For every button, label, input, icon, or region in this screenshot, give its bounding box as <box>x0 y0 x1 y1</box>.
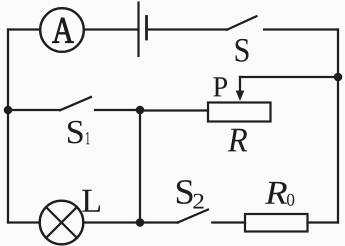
wire ammeter to battery <box>84 28 139 30</box>
switch S <box>227 16 338 30</box>
label S1 text S <box>68 121 83 144</box>
wire rail to lamp <box>8 221 40 223</box>
label S text <box>236 39 249 62</box>
node junction (wiper to right rail) <box>334 73 343 82</box>
label S2 text S <box>177 180 193 204</box>
wire middle vertical branch <box>139 110 141 223</box>
label R0 subscript 0 <box>287 194 294 206</box>
label S2 subscript 2 <box>193 194 203 209</box>
label A text <box>52 18 73 43</box>
label S1 subscript 1 <box>86 132 90 144</box>
battery (cell) <box>139 3 147 57</box>
label R0 text R <box>265 182 287 204</box>
lamp L <box>40 201 84 245</box>
node junction middle branch / lamp wire <box>136 218 145 227</box>
label P text <box>213 77 227 96</box>
switch S2 <box>140 210 245 223</box>
rheostat R body <box>208 103 271 122</box>
wire right rail <box>337 30 339 223</box>
ammeter A <box>40 8 84 52</box>
resistor R0 body <box>245 214 308 232</box>
wire wiper to right rail <box>240 76 338 78</box>
wire lamp to middle node <box>83 221 140 223</box>
rheostat R wiper arrow P <box>236 77 245 101</box>
switch S1 <box>8 97 140 110</box>
node junction left rail / S1 <box>4 106 13 115</box>
label R text <box>228 129 248 152</box>
wire rheostat to middle node <box>140 109 208 111</box>
wire R0 to right rail <box>308 221 339 223</box>
wire battery to switch S <box>147 28 228 30</box>
node junction S1 / rheostat / middle branch <box>136 106 145 115</box>
wire top left (rail to ammeter) <box>8 28 40 30</box>
label L text <box>82 190 100 212</box>
wire left rail <box>7 30 9 223</box>
